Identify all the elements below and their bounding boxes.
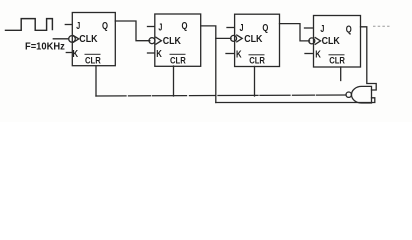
U3 CLR overline	[249, 54, 264, 56]
wire U3 CLR drop	[254, 67, 256, 97]
svg-text:J: J	[320, 24, 324, 35]
U2 CLK bubble	[149, 38, 155, 44]
wire Q2 down to NAND input	[215, 38, 217, 102]
U3 CLK wedge	[237, 35, 242, 42]
svg-text:CLK: CLK	[163, 36, 182, 47]
wire NAND lower input	[216, 98, 375, 103]
svg-text:Q: Q	[182, 21, 188, 32]
flip-flop U1 box	[72, 13, 115, 66]
wire U4 CLR drop	[340, 67, 342, 81]
svg-text:K: K	[236, 50, 242, 61]
svg-text:CLK: CLK	[244, 34, 263, 45]
U1 K input stub	[66, 52, 71, 54]
U1 CLK wedge	[73, 36, 78, 43]
NAND output bubble	[346, 92, 351, 97]
faint dashes right of Q4 wire	[374, 25, 390, 27]
svg-text:K: K	[73, 49, 79, 60]
U2 K input stub	[148, 52, 155, 54]
svg-text:CLR: CLR	[329, 56, 345, 66]
U1 J input stub	[65, 24, 71, 26]
svg-text:CLK: CLK	[322, 36, 341, 47]
U3 CLK bubble	[231, 35, 237, 41]
svg-text:J: J	[76, 21, 80, 32]
svg-text:CLK: CLK	[79, 34, 98, 45]
wire Q3 to U4 CLK	[280, 24, 310, 41]
flip-flop U3 box	[235, 14, 280, 66]
U4 J input stub	[305, 27, 313, 29]
U2 CLR overline	[170, 53, 185, 55]
flip-flop U2 box	[155, 14, 201, 66]
U4 CLR overline	[329, 54, 344, 56]
clock waveform	[6, 19, 53, 31]
U4 K input stub	[305, 53, 312, 55]
NAND gate G1 (mirrored)	[352, 86, 372, 103]
wire U2 CLR drop	[173, 66, 175, 96]
U3 J input stub	[227, 27, 234, 29]
U4 CLK bubble	[309, 38, 315, 44]
svg-text:K: K	[315, 50, 321, 61]
wire Q2 to U3 CLK	[201, 26, 231, 39]
wire Q1 to U2 CLK	[115, 21, 150, 41]
U1 CLR overline	[85, 53, 100, 55]
flip-flop U4 box	[314, 16, 361, 68]
svg-text:J: J	[158, 22, 162, 33]
svg-text:K: K	[156, 49, 162, 60]
U2 CLK wedge	[156, 37, 161, 44]
svg-text:F=10KHz: F=10KHz	[25, 41, 65, 52]
svg-text:J: J	[240, 23, 244, 34]
svg-text:CLR: CLR	[85, 55, 101, 65]
U4 CLK wedge	[315, 38, 320, 45]
U2 J input stub	[148, 26, 155, 28]
wire input to U1 CLK	[53, 38, 68, 40]
clear bus from NAND output	[96, 95, 346, 96]
svg-text:CLR: CLR	[249, 56, 265, 66]
svg-text:CLR: CLR	[170, 55, 186, 65]
U3 K input stub	[226, 53, 234, 55]
wire Q4 output to NAND input	[361, 27, 377, 90]
U1 CLK bubble	[69, 36, 76, 43]
svg-text:Q: Q	[102, 21, 108, 32]
svg-text:Q: Q	[346, 25, 352, 36]
svg-text:Q: Q	[262, 23, 268, 34]
wire U1 CLR drop	[95, 66, 97, 96]
